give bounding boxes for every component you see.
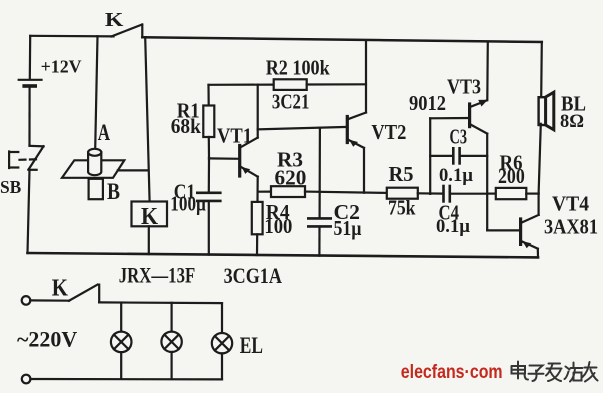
wire node to VT4 collector	[537, 194, 539, 215]
svg-text:SB: SB	[0, 177, 21, 197]
wire top rail left segment	[30, 35, 113, 38]
switch K (mains) contact drop	[98, 285, 100, 303]
switch K blade (top)	[112, 25, 143, 37]
wire lamp2 bottom	[171, 352, 173, 379]
wire lamp1 bottom	[120, 352, 122, 379]
resistor R6	[496, 188, 527, 199]
lamp circuit terminal top	[22, 296, 31, 305]
transistor VT4	[521, 215, 539, 249]
svg-text:C3: C3	[450, 125, 468, 149]
lamp EL1	[111, 332, 132, 353]
wire R2 row left drop to R1	[207, 85, 209, 106]
wire battery to SB	[28, 87, 30, 146]
wire VT1 collector to VT2 base	[258, 127, 348, 129]
wire VT2 base node down to C2	[319, 128, 321, 218]
wire VT3 base horizontal	[430, 117, 469, 120]
wire C3 branch right	[461, 155, 488, 157]
vibration sensor cylinder A	[88, 149, 101, 175]
wire VT3 emitter to top rail	[486, 42, 489, 100]
svg-text:~220V: ~220V	[17, 327, 77, 352]
vibration sensor B electrode lower block	[89, 179, 103, 199]
battery GB long plate	[19, 79, 42, 81]
svg-text:100: 100	[264, 214, 292, 238]
battery GB short plate	[24, 84, 35, 88]
wire lamp1 top	[120, 303, 122, 332]
wire base node to VT1	[209, 157, 240, 160]
wire rail to relay coil K	[145, 37, 149, 201]
wire VT3 base branch vertical	[429, 118, 431, 194]
svg-text:VT1: VT1	[217, 124, 252, 148]
transistor VT2	[347, 113, 366, 148]
resistor R1	[203, 106, 214, 138]
transistor VT1	[240, 138, 258, 177]
svg-text:VT3: VT3	[447, 75, 481, 99]
wire to R6	[487, 193, 496, 195]
switch K fixed contact drop	[141, 25, 143, 38]
svg-text:K: K	[141, 204, 158, 230]
svg-text:100µ: 100µ	[170, 192, 206, 216]
svg-text:A: A	[98, 120, 111, 145]
wire lamp2 top	[171, 303, 173, 332]
wire R2 row right segment	[307, 83, 366, 85]
wire VT1 emitter down	[256, 177, 258, 202]
svg-text:JRX—13F: JRX—13F	[119, 262, 195, 287]
wire relay coil to bottom rail	[148, 226, 150, 254]
wire C2 to bottom rail	[318, 227, 320, 256]
capacitor C2	[308, 218, 330, 226]
wire sensor plate to K coil line	[118, 169, 148, 171]
relay coil K box	[132, 202, 168, 227]
wire VT3 collector down to VT4 base	[486, 134, 488, 231]
svg-text:3CG1A: 3CG1A	[224, 263, 282, 288]
svg-text:VT2: VT2	[371, 120, 406, 144]
wire bottom rail	[28, 253, 539, 257]
svg-text:B: B	[107, 179, 120, 204]
wire VT1 collector up	[257, 85, 259, 138]
speaker BL	[539, 92, 554, 130]
svg-text:8Ω: 8Ω	[560, 111, 584, 132]
svg-text:+12V: +12V	[41, 57, 82, 77]
resistor R5	[387, 188, 418, 199]
svg-text:75k: 75k	[388, 196, 416, 220]
pushbutton SB top tick	[30, 145, 44, 148]
wire VT2 collector to top rail	[365, 42, 367, 113]
capacitor C1	[197, 193, 220, 201]
svg-text:K: K	[52, 276, 68, 302]
lamp EL3	[212, 333, 232, 353]
wire base node to C1	[208, 158, 210, 192]
svg-text:200: 200	[498, 164, 525, 188]
svg-text:R2 100k: R2 100k	[266, 55, 330, 79]
svg-text:3AX81: 3AX81	[544, 215, 598, 239]
wire lamp bottom bus	[30, 378, 222, 381]
svg-text:68k: 68k	[171, 114, 201, 138]
svg-text:K: K	[105, 9, 124, 31]
wire VT4 base	[487, 229, 520, 231]
wire rail to speaker	[540, 42, 543, 97]
wire lamp3 top	[221, 303, 223, 333]
wire battery top to rail	[29, 36, 32, 79]
vibration sensor plate	[62, 160, 124, 178]
pushbutton SB actuator E	[9, 152, 36, 169]
lamp EL2	[161, 332, 181, 352]
svg-text:R5: R5	[389, 162, 414, 186]
pushbutton SB blade	[29, 146, 44, 169]
resistor R4	[252, 202, 263, 234]
wire lamp3 bottom	[221, 353, 223, 379]
wire SB to bottom rail	[28, 170, 30, 253]
svg-text:620: 620	[275, 165, 307, 189]
watermark chinese characters	[512, 362, 598, 382]
wire node A from rail to sensor	[95, 36, 97, 149]
svg-text:0.1µ: 0.1µ	[436, 216, 470, 237]
capacitor C3	[453, 148, 459, 163]
wire R5 to C4	[418, 192, 443, 195]
wire VT4 emitter to bottom rail	[537, 249, 539, 258]
capacitor C4	[444, 186, 450, 201]
wire VT2 emitter down	[363, 148, 365, 193]
wire speaker to R6 node	[539, 124, 541, 194]
switch K (mains) blade	[69, 285, 98, 301]
lamp circuit terminal bottom	[22, 375, 31, 384]
transistor VT3	[470, 100, 488, 134]
wire terminal to switch	[30, 299, 69, 302]
pushbutton SB bottom tick	[29, 169, 37, 171]
wire C3 branch left	[430, 155, 452, 157]
wire R3 to R5	[305, 192, 387, 193]
wire emitter node to R3	[258, 191, 271, 193]
wire top rail right segment	[142, 37, 542, 42]
svg-text:51µ: 51µ	[334, 216, 362, 240]
wire R2 row left segment	[209, 83, 274, 85]
resistor R2	[274, 79, 307, 90]
svg-text:elecfans·com: elecfans·com	[401, 362, 503, 383]
wire lamp top bus	[99, 301, 222, 304]
svg-text:3C21: 3C21	[272, 90, 310, 114]
wire R4 to bottom rail	[256, 234, 258, 255]
resistor R3	[271, 186, 305, 197]
svg-text:0.1µ: 0.1µ	[439, 165, 473, 186]
wire C4 to VT3 collector line	[451, 193, 487, 195]
svg-text:9012: 9012	[409, 91, 446, 115]
wire C1 to bottom rail	[208, 201, 210, 254]
svg-text:VT4: VT4	[552, 192, 589, 216]
svg-text:EL: EL	[240, 333, 263, 358]
wire R1 to base node	[208, 137, 210, 158]
wire R6 to speaker node	[526, 193, 538, 195]
